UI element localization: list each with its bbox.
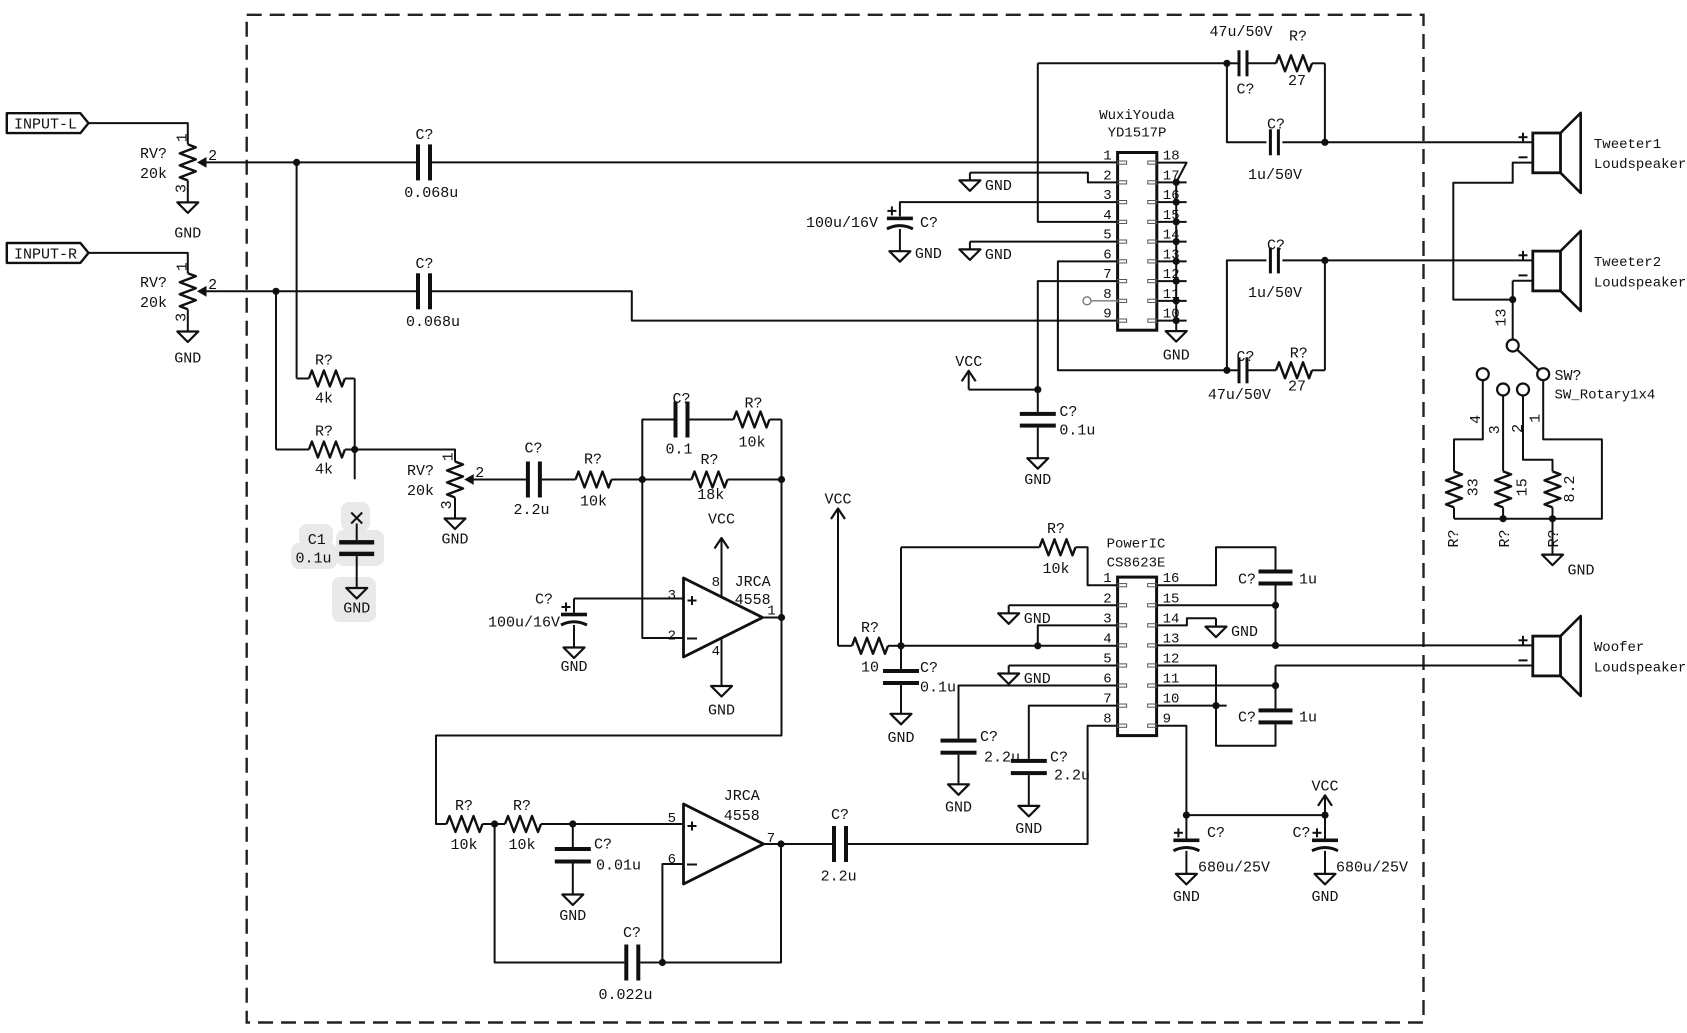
- YD right-side ground bus: [1157, 163, 1187, 332]
- ground (YD decoupling): [1024, 458, 1051, 489]
- capacitor C? 2.2u (filter input): [513, 441, 549, 520]
- svg-text:GND: GND: [559, 908, 586, 925]
- potentiometer RV? 20k (right input): [140, 262, 217, 322]
- svg-text:47u/50V: 47u/50V: [1208, 387, 1271, 404]
- junction (stage2 T node): [491, 820, 498, 827]
- wire node down to op-amp1 pin2: [642, 480, 683, 639]
- wire YD pin7 to VCC node: [1038, 281, 1118, 390]
- svg-text:2.2u: 2.2u: [984, 750, 1020, 767]
- capacitor C? 0.068u (left channel): [404, 127, 458, 202]
- svg-text:27: 27: [1288, 73, 1306, 90]
- op-amp U? JRCA 4558 (first): [668, 538, 776, 686]
- wire pin15: [1157, 602, 1280, 609]
- svg-text:INPUT-L: INPUT-L: [14, 117, 77, 134]
- svg-text:YD1517P: YD1517P: [1108, 126, 1167, 142]
- svg-text:VCC: VCC: [824, 492, 851, 509]
- svg-text:Tweeter2: Tweeter2: [1594, 255, 1661, 271]
- ground (bulk 1): [1173, 874, 1200, 906]
- wire RV3 pin3 to ground: [454, 498, 456, 519]
- svg-text:CS8623E: CS8623E: [1107, 556, 1166, 572]
- junction (R wiper node): [272, 288, 279, 295]
- svg-text:R?: R?: [455, 798, 473, 815]
- wire stub below mix node: [354, 450, 356, 480]
- svg-text:1: 1: [174, 262, 191, 271]
- op-amp U? JRCA 4558 (second): [668, 788, 776, 884]
- svg-text:C?: C?: [672, 391, 690, 408]
- svg-text:3: 3: [1487, 425, 1504, 434]
- resistor R? 4k (upper): [297, 353, 355, 408]
- svg-text:5: 5: [668, 811, 676, 827]
- ground (attenuator): [1542, 555, 1595, 580]
- svg-text:VCC: VCC: [1311, 778, 1338, 795]
- svg-text:0.1u: 0.1u: [920, 680, 956, 697]
- junction (YD VCC node): [1034, 386, 1041, 393]
- svg-text:RV?: RV?: [140, 275, 167, 292]
- svg-text:8: 8: [1103, 712, 1111, 728]
- svg-text:C?: C?: [1238, 572, 1256, 589]
- svg-text:1: 1: [1103, 149, 1111, 165]
- svg-text:1u: 1u: [1299, 710, 1317, 727]
- svg-text:R?: R?: [513, 798, 531, 815]
- potentiometer RV? 20k (left input): [140, 133, 217, 193]
- ground (YD pin2): [959, 178, 1012, 195]
- svg-text:PowerIC: PowerIC: [1107, 537, 1166, 553]
- svg-text:10k: 10k: [738, 435, 765, 452]
- svg-text:6: 6: [668, 852, 676, 868]
- wire YD pin2 to ground: [970, 173, 1118, 183]
- svg-text:GND: GND: [1015, 821, 1042, 838]
- svg-text:R?: R?: [315, 424, 333, 441]
- junction (feedback bottom node): [659, 959, 666, 966]
- wire bottom node B: [1282, 257, 1328, 371]
- svg-text:0.01u: 0.01u: [596, 858, 641, 875]
- junction (op-amp1 output): [778, 614, 785, 621]
- svg-text:680u/25V: 680u/25V: [1198, 860, 1270, 877]
- wire common node to switch pin13: [1493, 300, 1512, 340]
- ground (power decoupling): [887, 714, 914, 747]
- svg-text:GND: GND: [1173, 889, 1200, 906]
- capacitor C? 680u/25V (bulk 2): [1292, 815, 1408, 876]
- svg-text:15: 15: [1515, 478, 1532, 496]
- wire op-amp1 pin3 to bias cap: [574, 598, 684, 600]
- svg-text:C?: C?: [1207, 825, 1225, 842]
- wire pin5 to ground: [1009, 665, 1118, 673]
- power flag VCC (op-amp1 pin8): [708, 512, 735, 549]
- svg-text:GND: GND: [441, 532, 468, 549]
- capacitor C? 1u (charge pump bottom): [1238, 708, 1317, 726]
- svg-text:Woofer: Woofer: [1594, 640, 1644, 656]
- resistor R? 4k (lower): [309, 424, 355, 479]
- svg-text:GND: GND: [1568, 562, 1595, 579]
- resistor R? 10k (standby pullup): [1040, 521, 1118, 585]
- svg-text:C?: C?: [920, 215, 938, 232]
- svg-text:RV?: RV?: [140, 146, 167, 163]
- wire RV2 wiper to node: [206, 290, 417, 292]
- wire rail to ground: [1552, 519, 1554, 555]
- svg-text:GND: GND: [1024, 472, 1051, 489]
- resistor R? 27 (top boost): [1248, 29, 1325, 91]
- junction (tweeter return node): [1509, 296, 1516, 303]
- svg-text:R?: R?: [744, 396, 762, 413]
- svg-text:C?: C?: [1059, 404, 1077, 421]
- svg-text:GND: GND: [1231, 624, 1258, 641]
- ground (bulk 2): [1311, 874, 1338, 906]
- svg-text:C?: C?: [1050, 750, 1068, 767]
- ground (YD pin5): [959, 247, 1012, 264]
- svg-text:RV?: RV?: [407, 463, 434, 480]
- ground (ripple cap): [889, 246, 942, 263]
- loudspeaker LS? Tweeter1: [1519, 113, 1687, 193]
- svg-text:R?: R?: [861, 620, 879, 637]
- svg-text:C?: C?: [1267, 238, 1285, 255]
- wire upper 4k to mix node: [354, 379, 356, 450]
- resistor R? 10k (stage2 series): [495, 798, 573, 854]
- wire to op-amp2 pin5: [573, 823, 684, 825]
- svg-text:1: 1: [1527, 414, 1544, 423]
- junction (boost bottom node A): [1223, 367, 1230, 374]
- svg-text:GND: GND: [343, 601, 370, 618]
- svg-text:R?: R?: [315, 353, 333, 370]
- wire mix node to RV3 pin1: [355, 450, 455, 462]
- svg-text:GND: GND: [915, 246, 942, 263]
- capacitor C? 100u/16V (bias): [488, 592, 587, 648]
- svg-text:100u/16V: 100u/16V: [488, 615, 560, 632]
- junction (bulk cap node): [1183, 812, 1190, 819]
- svg-text:1: 1: [174, 133, 191, 142]
- svg-text:SW_Rotary1x4: SW_Rotary1x4: [1555, 388, 1656, 404]
- svg-text:C?: C?: [1267, 117, 1285, 134]
- net label INPUT-L: [7, 113, 89, 133]
- ground (0.01u): [559, 895, 586, 926]
- svg-text:10k: 10k: [508, 837, 535, 854]
- svg-text:GND: GND: [887, 730, 914, 747]
- ground (RV1): [174, 202, 201, 242]
- svg-text:33: 33: [1465, 478, 1482, 496]
- svg-text:0.1u: 0.1u: [295, 550, 331, 567]
- svg-text:R?: R?: [1446, 529, 1463, 547]
- wire L node to R? 4k (upper): [296, 162, 298, 378]
- capacitor C? 680u/25V (bulk 1): [1173, 815, 1270, 876]
- svg-text:3: 3: [668, 588, 676, 604]
- wire switch pos1 to rail: [1454, 380, 1602, 518]
- capacitor C? 0.01u (shunt): [555, 824, 641, 895]
- svg-text:20k: 20k: [140, 295, 167, 312]
- svg-text:C?: C?: [415, 127, 433, 144]
- svg-text:1u: 1u: [1299, 572, 1317, 589]
- ground (bias cap): [560, 648, 587, 677]
- svg-text:2: 2: [668, 629, 676, 645]
- svg-text:Loudspeaker: Loudspeaker: [1594, 157, 1686, 173]
- svg-text:C?: C?: [535, 592, 553, 609]
- wire feedback right node: [781, 420, 783, 618]
- unconnected capacitor C1 0.1u (highlighted): [295, 513, 374, 589]
- svg-text:GND: GND: [174, 225, 201, 242]
- svg-text:47u/50V: 47u/50V: [1209, 24, 1272, 41]
- resistor R? 10k (feedback): [734, 396, 782, 452]
- svg-text:8: 8: [712, 575, 720, 591]
- junction (mix node): [351, 446, 358, 453]
- wire pin6 to C? 2.2u: [959, 686, 1118, 739]
- resistor R? 8.2 (attenuator): [1545, 471, 1579, 547]
- junction (op-amp1 inverting node): [639, 476, 646, 483]
- loudspeaker LS? Woofer: [1519, 616, 1687, 696]
- wire pin3 to VCC node: [1034, 625, 1117, 649]
- wire 2.2u to R? 10k: [542, 479, 576, 481]
- ground (RV3): [441, 519, 468, 549]
- svg-text:Loudspeaker: Loudspeaker: [1594, 275, 1686, 291]
- wire 0.022u back to T node: [495, 824, 625, 963]
- svg-text:GND: GND: [174, 351, 201, 368]
- svg-text:INPUT-R: INPUT-R: [14, 246, 77, 263]
- junction (L wiper node): [293, 159, 300, 166]
- wire C? to YD1517P pin9: [432, 291, 1118, 320]
- svg-text:2: 2: [1510, 424, 1527, 433]
- wire switch pos2 to R 8.2: [1523, 396, 1553, 472]
- wire node up to feedback C/R: [642, 420, 673, 480]
- svg-text:9: 9: [1103, 307, 1111, 323]
- capacitor C? 1u/50V (tweeter2 coupling): [1248, 238, 1302, 303]
- wire pin14 to ground: [1157, 618, 1216, 626]
- wire op-amp2 output: [764, 843, 782, 845]
- capacitor C? 2.2u (sub out coupling): [781, 807, 857, 886]
- svg-text:C?: C?: [623, 925, 641, 942]
- wire RV2 pin3 to ground: [187, 309, 189, 331]
- svg-text:R?: R?: [1546, 529, 1563, 547]
- wire Tweeter2 - to common node: [1513, 281, 1533, 300]
- svg-text:18k: 18k: [697, 487, 724, 504]
- svg-text:20k: 20k: [407, 483, 434, 500]
- svg-text:C?: C?: [1236, 82, 1254, 99]
- wire YD pin4 to VCC rail: [1038, 63, 1118, 222]
- svg-text:13: 13: [1493, 308, 1510, 326]
- wire top node B: [1282, 63, 1328, 146]
- ground (CS pin2): [998, 611, 1051, 628]
- svg-text:GND: GND: [985, 178, 1012, 195]
- svg-text:GND: GND: [1311, 889, 1338, 906]
- svg-text:Tweeter1: Tweeter1: [1594, 137, 1661, 153]
- ground (bootstrap 2): [1015, 806, 1042, 838]
- wire switch pos4 to R 33: [1454, 381, 1483, 472]
- wire R node to R? 4k (lower): [276, 291, 309, 449]
- capacitor C? 2.2u (bootstrap 2): [1011, 750, 1090, 806]
- resistor R? 10 (VCC filter): [838, 620, 901, 677]
- resistor R? 18k (feedback parallel): [642, 452, 781, 504]
- potentiometer RV? 20k (bass level): [407, 452, 484, 509]
- svg-text:R?: R?: [1497, 529, 1514, 547]
- resistor R? 10k (stage2 input): [447, 798, 495, 854]
- junction (attenuator rail): [1500, 515, 1557, 522]
- capacitor C? 0.022u (feedback): [598, 925, 662, 1004]
- loudspeaker LS? Tweeter2: [1519, 231, 1687, 311]
- svg-text:1u/50V: 1u/50V: [1248, 167, 1302, 184]
- svg-text:C?: C?: [594, 837, 612, 854]
- svg-text:GND: GND: [560, 659, 587, 676]
- svg-text:20k: 20k: [140, 166, 167, 183]
- wire op-amp1 output: [763, 617, 782, 619]
- wire pin2 to ground: [1009, 605, 1118, 613]
- svg-text:680u/25V: 680u/25V: [1336, 860, 1408, 877]
- capacitor C? 0.1 (feedback): [665, 391, 692, 458]
- wire RV1 wiper to node: [206, 161, 417, 163]
- wire top node A down to 1u cap: [1227, 63, 1267, 142]
- svg-text:VCC: VCC: [708, 512, 735, 529]
- capacitor C? 0.1u (power decoupling): [883, 646, 956, 714]
- svg-text:0.1: 0.1: [665, 442, 692, 459]
- svg-text:R?: R?: [584, 452, 602, 469]
- ground (CS pin14): [1206, 624, 1259, 641]
- svg-text:R?: R?: [1047, 521, 1065, 538]
- svg-text:4558: 4558: [735, 592, 771, 609]
- svg-text:C?: C?: [415, 256, 433, 273]
- junction (op-amp2 + node): [569, 820, 576, 827]
- svg-text:SW?: SW?: [1555, 368, 1582, 385]
- wire op-amp2 pin6 to feedback: [662, 864, 683, 963]
- power flag VCC (power stage): [824, 492, 851, 646]
- svg-text:GND: GND: [1024, 611, 1051, 628]
- svg-text:R?: R?: [1290, 346, 1308, 363]
- wire pin16 to C? 1u: [1157, 547, 1276, 585]
- svg-text:4k: 4k: [315, 462, 333, 479]
- svg-text:10k: 10k: [580, 494, 607, 511]
- power flag VCC (YD supply): [955, 354, 1038, 390]
- wire YD pin6 to boost (bottom): [1058, 261, 1227, 370]
- IC U? WuxiYouda YD1517P: [1099, 108, 1179, 330]
- svg-text:C?: C?: [980, 729, 998, 746]
- svg-text:C?: C?: [1292, 825, 1310, 842]
- wire node B to Tweeter1 +: [1325, 141, 1533, 143]
- svg-text:C?: C?: [920, 660, 938, 677]
- svg-text:C?: C?: [524, 441, 542, 458]
- wire YD pin3 to ripple cap: [900, 202, 1118, 216]
- svg-text:GND: GND: [708, 703, 735, 720]
- wire bottom node A up to 1u cap: [1227, 260, 1267, 370]
- junction (op-amp2 output): [777, 840, 784, 847]
- svg-text:C?: C?: [831, 807, 849, 824]
- svg-text:1: 1: [441, 452, 458, 461]
- junction (filtered VCC node): [897, 642, 904, 649]
- wire VCC node to R? 10k and pin4: [901, 547, 1118, 646]
- svg-text:C1: C1: [308, 532, 326, 549]
- svg-text:GND: GND: [1163, 348, 1190, 365]
- svg-text:2.2u: 2.2u: [1054, 768, 1090, 785]
- wire pin7 to C? 2.2u: [1029, 706, 1118, 759]
- ground (CS pin5): [998, 671, 1051, 688]
- svg-text:10k: 10k: [450, 837, 477, 854]
- svg-text:10: 10: [861, 660, 879, 677]
- svg-text:C?: C?: [1236, 349, 1254, 366]
- capacitor C? 47u/50V (bottom boost): [1208, 349, 1271, 404]
- capacitor C? 2.2u (bootstrap 1): [941, 729, 1021, 784]
- wire pin13 to Woofer +: [1157, 642, 1533, 649]
- resistor R? 10k (filter series): [576, 452, 643, 511]
- svg-text:2.2u: 2.2u: [513, 502, 549, 519]
- wire INPUT-L to RV1 pin1: [89, 123, 188, 144]
- junction (boost top node A): [1038, 60, 1231, 67]
- IC U? PowerIC CS8623E: [1103, 537, 1179, 736]
- svg-text:R?: R?: [700, 452, 718, 469]
- wire pin11 to 1u and Woofer -: [1157, 666, 1533, 709]
- power flag VCC (bulk rail): [1311, 778, 1338, 815]
- svg-text:2.2u: 2.2u: [821, 869, 857, 886]
- rotary switch SW? SW_Rotary1x4: [1468, 340, 1656, 435]
- wire C? to YD1517P pin1: [432, 161, 1118, 163]
- ground (RV2): [174, 332, 201, 368]
- svg-text:Loudspeaker: Loudspeaker: [1594, 660, 1686, 676]
- ground (YD pins 10-17): [1163, 331, 1190, 364]
- resistor R? 33 (attenuator): [1446, 471, 1483, 547]
- resistor R? 27 (bottom boost): [1248, 346, 1325, 396]
- svg-text:WuxiYouda: WuxiYouda: [1099, 108, 1175, 124]
- svg-text:3: 3: [439, 500, 456, 509]
- svg-text:4558: 4558: [724, 808, 760, 825]
- selection highlight behind C1: [291, 502, 384, 622]
- capacitor C? 1u/50V (tweeter1 coupling): [1248, 117, 1302, 184]
- svg-text:VCC: VCC: [955, 354, 982, 371]
- wire Tweeter1 - to switch common: [1453, 163, 1533, 300]
- svg-text:C?: C?: [1238, 710, 1256, 727]
- svg-text:10k: 10k: [1042, 561, 1069, 578]
- capacitor C? 47u/50V (top boost): [1209, 24, 1272, 99]
- wire node B to Tweeter2 +: [1325, 259, 1533, 261]
- wire pin12 to pin10 net: [1157, 665, 1276, 745]
- wire 0.1 cap to R? 10k feedback: [690, 419, 734, 421]
- svg-text:0.1u: 0.1u: [1059, 423, 1095, 440]
- unconnected pin 8 (YD): [1083, 297, 1118, 305]
- svg-text:4: 4: [712, 644, 720, 660]
- wire bulk rail: [1186, 812, 1328, 819]
- ground (C1): [343, 588, 370, 618]
- svg-text:JRCA: JRCA: [735, 574, 771, 591]
- capacitor C? 0.1u (YD decoupling): [1020, 390, 1096, 459]
- svg-text:8.2: 8.2: [1562, 475, 1579, 502]
- resistor R? 15 (attenuator): [1495, 471, 1532, 547]
- wire 1u to pins 15/13: [1275, 586, 1277, 646]
- wire op-amp1 output to stage2: [436, 618, 782, 825]
- wire RV3 wiper to C? 2.2u: [473, 479, 526, 481]
- wire 2.2u to CS8623E pin8: [846, 726, 1118, 844]
- wire INPUT-R to RV2 pin1: [89, 253, 188, 273]
- svg-text:JRCA: JRCA: [724, 788, 760, 805]
- capacitor C? 1u (charge pump top): [1238, 570, 1317, 589]
- svg-text:0.068u: 0.068u: [406, 314, 460, 331]
- ground (bootstrap 1): [945, 784, 972, 816]
- wire pin9 to bulk caps: [1157, 726, 1187, 815]
- svg-text:4k: 4k: [315, 391, 333, 408]
- svg-text:GND: GND: [945, 799, 972, 816]
- svg-text:R?: R?: [1289, 29, 1307, 46]
- svg-text:27: 27: [1288, 378, 1306, 395]
- svg-text:0.022u: 0.022u: [598, 987, 652, 1004]
- wire output feedback loop: [662, 844, 781, 963]
- junction (feedback/18k node): [778, 476, 785, 483]
- wire YD pin5 to ground: [970, 242, 1118, 250]
- net label INPUT-R: [7, 243, 89, 263]
- wire pin10: [1157, 702, 1227, 709]
- svg-text:1u/50V: 1u/50V: [1248, 285, 1302, 302]
- wire switch pos3 to R 15: [1502, 396, 1504, 472]
- capacitor C? 0.068u (right channel): [406, 256, 460, 331]
- svg-text:0.068u: 0.068u: [404, 185, 458, 202]
- svg-text:GND: GND: [985, 247, 1012, 264]
- ground (op-amp1 pin4): [708, 686, 735, 720]
- capacitor C? 100u/16V (ripple): [806, 206, 938, 251]
- wire RV1 pin3 to ground: [187, 180, 189, 202]
- svg-text:100u/16V: 100u/16V: [806, 215, 878, 232]
